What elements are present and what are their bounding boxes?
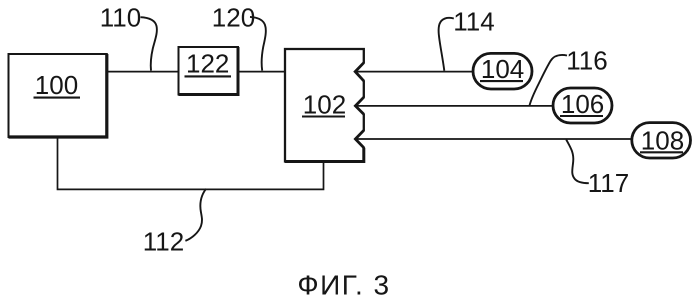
svg-text:102: 102 (303, 90, 346, 120)
svg-text:106: 106 (561, 89, 604, 119)
svg-text:114: 114 (453, 7, 494, 37)
svg-text:122: 122 (186, 49, 229, 79)
svg-text:117: 117 (588, 168, 629, 198)
svg-text:104: 104 (481, 54, 524, 84)
svg-text:120: 120 (212, 2, 255, 32)
svg-text:ФИГ. 3: ФИГ. 3 (297, 269, 390, 300)
svg-text:116: 116 (566, 45, 607, 75)
svg-text:108: 108 (641, 125, 684, 155)
svg-text:112: 112 (143, 227, 184, 257)
svg-text:100: 100 (35, 70, 78, 100)
svg-text:110: 110 (100, 2, 141, 32)
